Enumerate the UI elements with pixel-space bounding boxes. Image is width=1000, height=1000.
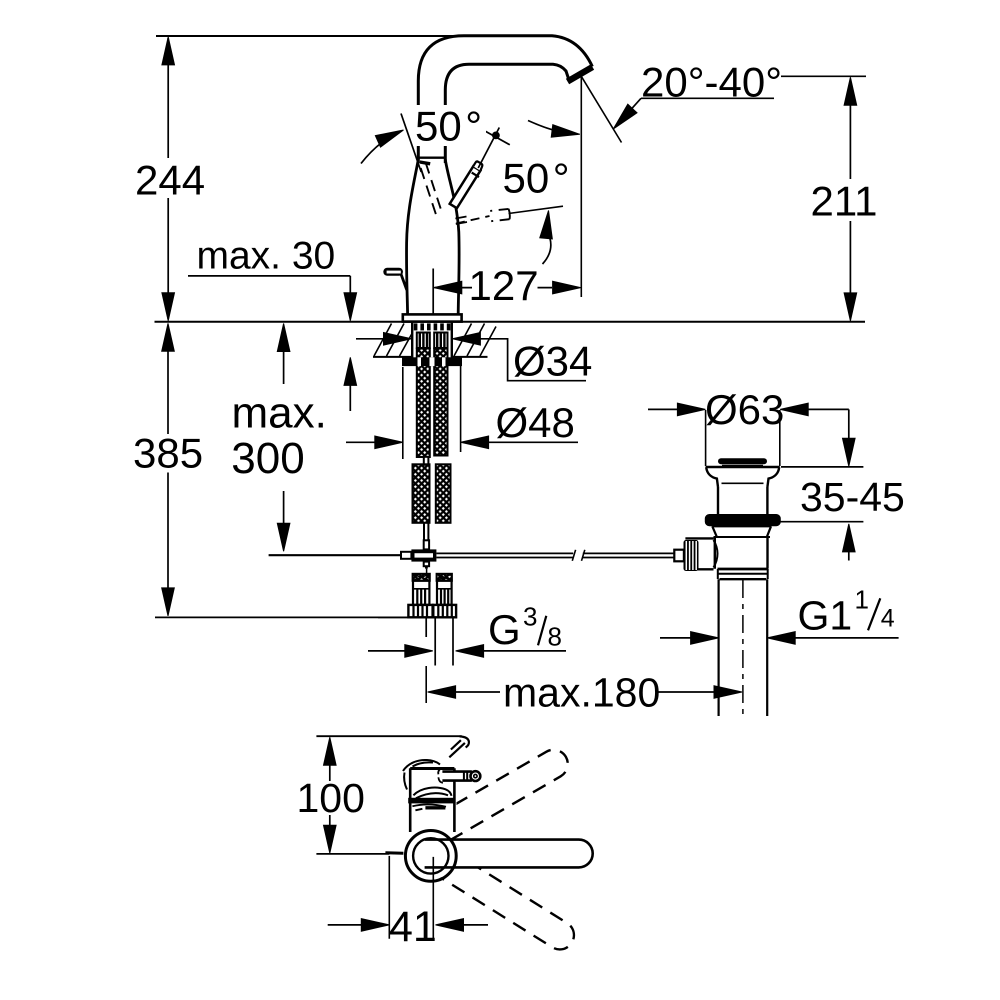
svg-text:Ø48: Ø48	[496, 399, 575, 446]
dimension 35-45 upper	[848, 409, 850, 438]
svg-text:G: G	[488, 606, 521, 653]
plan left stub	[385, 851, 403, 855]
open handle dashed line	[456, 216, 490, 224]
plan joystick rod	[442, 772, 472, 781]
open handle tip dashed box	[490, 209, 509, 221]
waste bottom cap	[718, 568, 769, 571]
label 50 deg first background	[413, 105, 486, 146]
dimension 41 extension lines	[389, 856, 433, 939]
hidden dashed line 2	[426, 163, 442, 212]
hose gap tube	[424, 457, 429, 465]
faucet centerline extension	[432, 269, 434, 316]
open handle arc arrow	[543, 239, 551, 265]
swivel thick mark	[420, 162, 430, 164]
svg-text:8: 8	[548, 622, 562, 652]
waste neck left	[706, 467, 718, 487]
G38 connector left body	[413, 581, 429, 605]
handle lever cap	[473, 161, 482, 170]
plan lower reference line	[316, 853, 389, 855]
svg-text:41: 41	[389, 903, 437, 951]
spout outer outline	[418, 36, 592, 163]
braided hose right segment 2	[436, 464, 451, 523]
plan top reference line	[316, 735, 461, 737]
plan lower sketch	[412, 804, 446, 806]
dimension 244 top arrow	[162, 37, 175, 65]
svg-text:300: 300	[231, 434, 304, 483]
dimension dia63	[648, 408, 677, 410]
plan body top edge	[410, 767, 454, 770]
waste dia63 extension lines	[706, 410, 780, 466]
body right outline	[445, 160, 459, 315]
plan joystick cap	[471, 771, 481, 781]
swivel indicator line	[401, 114, 421, 173]
mounting shank sides	[412, 322, 452, 358]
pivot cross line	[482, 129, 510, 145]
dimension 385 line	[167, 327, 169, 613]
svg-text:211: 211	[811, 178, 878, 225]
top reference line	[156, 35, 462, 37]
locknut band	[402, 357, 462, 366]
plan spout tip sketch	[460, 736, 469, 747]
dimension 100	[324, 737, 337, 765]
waste push cap	[721, 458, 764, 464]
waste below seal	[712, 525, 771, 527]
dimension 127 line	[435, 287, 553, 289]
braided hose left segment 1	[417, 349, 430, 458]
waste upper body sides	[718, 487, 767, 514]
max30 lower arrow	[349, 385, 351, 411]
plan cap sketch	[403, 760, 440, 771]
waste seal ring	[705, 514, 781, 526]
plan body sides	[410, 768, 454, 832]
dimension G38 arrows	[368, 650, 405, 652]
svg-text:20°-40°: 20°-40°	[641, 58, 782, 105]
svg-text:Ø63: Ø63	[705, 386, 784, 433]
lift rod knob	[383, 268, 407, 290]
svg-text:Ø34: Ø34	[513, 337, 592, 384]
svg-text:1: 1	[855, 584, 869, 614]
counter bottom line right	[452, 356, 488, 358]
G114 fraction slash	[868, 598, 880, 630]
waste flange top	[706, 466, 780, 468]
label 20-40 underline	[641, 97, 774, 99]
G38 fraction slash	[538, 616, 546, 646]
dimension 244 bottom arrow	[162, 293, 175, 321]
actuator arm inner arc	[714, 540, 718, 568]
dimension max300	[277, 324, 290, 352]
max30 underline	[188, 275, 350, 277]
svg-text:127: 127	[469, 262, 539, 309]
open handle axis thin line	[509, 206, 564, 213]
plan solid handle bar	[425, 840, 593, 868]
dimension 211 top extension	[781, 75, 866, 77]
waste centerline	[742, 580, 744, 716]
right tail tube	[435, 617, 453, 665]
actuator knob	[684, 540, 699, 571]
actuator collar	[674, 550, 684, 562]
dimension 211 line	[849, 79, 851, 319]
dimension G114	[660, 637, 691, 639]
max180 left extension	[425, 666, 427, 703]
plan joystick base curls	[438, 768, 443, 783]
open handle base marks	[455, 217, 467, 225]
dimension dia34	[356, 338, 384, 340]
G38 connector left base	[408, 605, 432, 617]
svg-text:3: 3	[523, 602, 537, 632]
left hose tail lower	[425, 617, 427, 637]
G38 connector left crimp	[413, 574, 430, 581]
svg-text:50 °: 50 °	[415, 102, 482, 149]
G38 connector right body	[437, 581, 452, 605]
dimension dia48	[346, 441, 375, 443]
coupler lower pin	[424, 562, 429, 567]
svg-text:max.180: max.180	[503, 669, 660, 715]
spout tip face	[568, 67, 593, 82]
dimension 244 line	[167, 38, 169, 319]
bottom reference line	[155, 616, 455, 618]
pull rod left section	[269, 554, 402, 556]
shank thread dashes	[414, 323, 451, 330]
dimension 35-45 lower	[780, 521, 863, 523]
actuator arm	[685, 538, 713, 569]
counter top line	[155, 321, 866, 323]
plan inner circle	[413, 838, 448, 873]
handle axis line	[478, 128, 499, 169]
left hose tail tube	[424, 523, 428, 540]
hidden dashed line 1	[421, 168, 437, 217]
counter bottom line left	[373, 356, 412, 358]
max30 upper arrow	[349, 276, 351, 294]
label 20-40 leader	[617, 98, 641, 125]
svg-text:100: 100	[297, 775, 365, 821]
svg-text:244: 244	[135, 157, 205, 204]
svg-text:G1: G1	[798, 592, 853, 638]
plan dashed handle lower	[421, 841, 579, 954]
spout tip vertical extension	[580, 76, 582, 297]
counter hatching	[374, 324, 496, 357]
base plate	[403, 314, 462, 321]
svg-text:50 °: 50 °	[503, 155, 570, 202]
plan black band	[408, 798, 455, 804]
coupler drop line	[426, 569, 428, 574]
dimension max180	[428, 686, 456, 699]
pull rod right section 2	[583, 553, 675, 557]
handle lever	[450, 166, 481, 208]
G38 connector right crimp	[437, 574, 452, 581]
pivot dot	[492, 132, 500, 140]
connector side tick	[378, 616, 408, 618]
svg-text:35-45: 35-45	[800, 474, 905, 520]
coupler upper pin	[424, 540, 429, 549]
plan masks	[407, 764, 578, 880]
G38 connector right base	[433, 605, 456, 617]
braided hose left segment 2	[413, 464, 430, 523]
waste lower body sides	[715, 537, 768, 569]
pull rod end block	[401, 552, 411, 559]
riser joint line	[418, 156, 445, 158]
diameter48 extension lines	[403, 366, 461, 459]
hose fitting right	[434, 333, 447, 349]
spout inner outline	[445, 64, 569, 163]
waste tailpipe	[719, 579, 768, 716]
svg-text:max.: max.	[232, 389, 327, 438]
svg-text:385: 385	[133, 430, 203, 477]
spout tip angle line	[581, 76, 621, 142]
hose fitting left	[417, 333, 430, 349]
dimension 41	[328, 924, 362, 926]
arc arrow left of riser	[361, 132, 398, 164]
waste neck joint line	[722, 482, 764, 484]
body left outline	[407, 160, 419, 315]
pull rod coupler	[411, 549, 436, 561]
arc arrow right to extension line	[528, 121, 564, 133]
plan outer circle	[405, 831, 456, 882]
braided hose right segment 1	[434, 349, 447, 456]
plan dashed handle upper	[422, 745, 573, 849]
svg-text:4: 4	[881, 604, 895, 632]
waste neck right	[767, 467, 779, 487]
pull rod right section	[436, 553, 573, 557]
svg-text:max. 30: max. 30	[197, 235, 336, 278]
rod break marks	[572, 550, 585, 561]
plan joystick collar	[464, 771, 467, 781]
